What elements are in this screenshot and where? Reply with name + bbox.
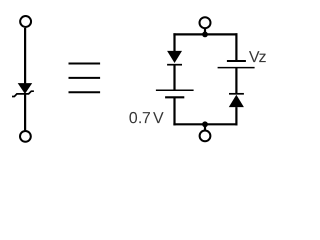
wire (top rail): [173, 33, 237, 35]
terminal bottom-left: [20, 131, 31, 142]
label Vz: [249, 51, 266, 62]
battery V2 positive plate: [218, 67, 255, 69]
wire (bottom rail): [173, 123, 237, 125]
wire (left branch middle): [173, 65, 175, 91]
wire (right branch middle): [235, 68, 237, 94]
terminal top-left: [20, 16, 31, 27]
battery V1 negative plate: [165, 96, 184, 98]
terminal bottom-right: [200, 131, 211, 142]
terminal top-right: [200, 17, 211, 28]
diode D2 cathode bar: [229, 93, 244, 95]
diode D1 cathode bar: [167, 64, 182, 66]
wire (right branch upper): [235, 33, 237, 61]
battery V1 positive plate: [156, 89, 194, 91]
wire (bottom stub): [204, 124, 206, 130]
wire (right branch lower): [235, 107, 237, 125]
wire (left branch upper): [173, 33, 175, 51]
junction dot bottom: [202, 121, 208, 127]
wire (top stub): [204, 29, 206, 35]
wire (zener cathode lead): [24, 94, 26, 130]
wire (left branch lower): [173, 97, 175, 125]
label 0.7V: [129, 112, 163, 123]
battery V2 negative plate: [227, 60, 246, 62]
zener diode DZ anode triangle: [18, 83, 33, 94]
wire (zener anode lead): [24, 28, 26, 84]
diode D2 anode triangle: [229, 95, 244, 107]
zener diode DZ cathode bar: [12, 91, 34, 96]
diode D1 anode triangle: [167, 51, 182, 63]
junction dot top: [202, 32, 208, 38]
equivalence symbol: [69, 64, 101, 93]
